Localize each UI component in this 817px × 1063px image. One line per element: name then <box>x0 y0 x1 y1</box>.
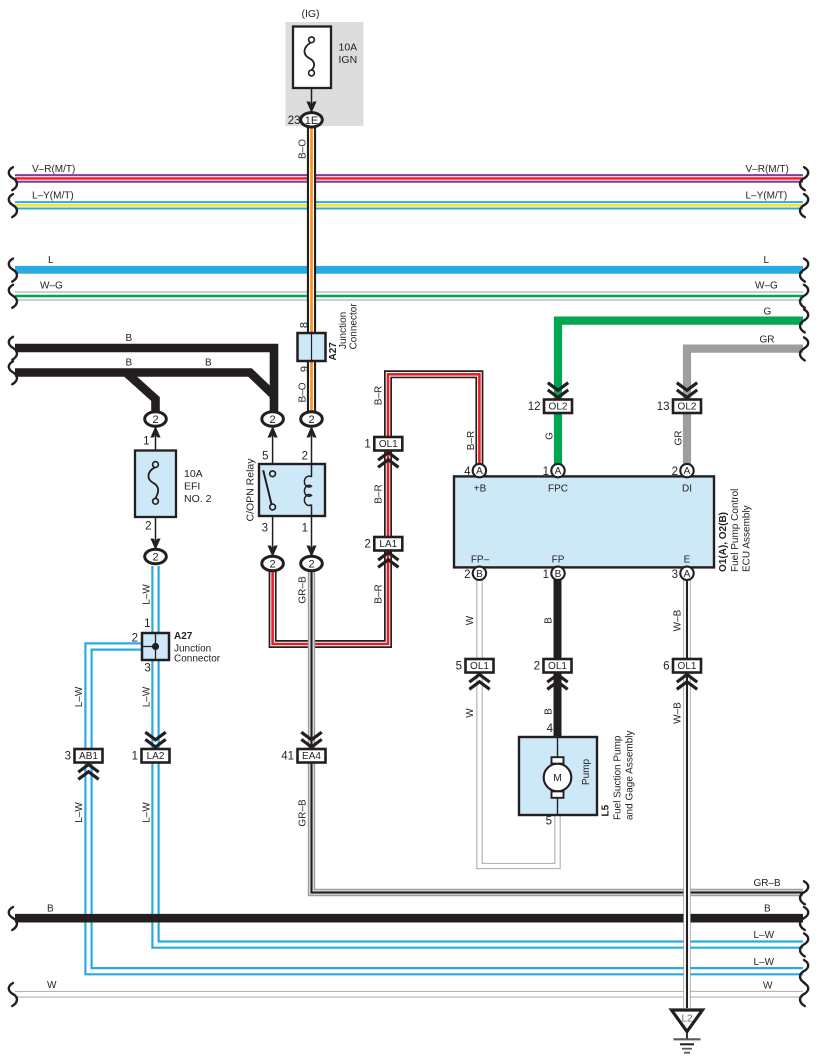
svg-text:Pump: Pump <box>581 759 592 786</box>
relay C/OPN Relay <box>259 464 325 516</box>
svg-text:4: 4 <box>547 723 554 735</box>
wire stub EFI fuse to node 2 <box>155 516 157 550</box>
svg-text:L5: L5 <box>601 804 612 816</box>
svg-text:2: 2 <box>270 414 276 426</box>
svg-text:A: A <box>684 569 691 580</box>
svg-text:B–R: B–R <box>374 484 385 503</box>
wire L bus <box>15 266 803 274</box>
svg-text:W–B: W–B <box>673 609 684 631</box>
wire GR below OL2 to ECU pin DI <box>683 412 691 466</box>
svg-text:OL1: OL1 <box>379 439 398 450</box>
relay coil <box>311 464 313 477</box>
svg-text:8: 8 <box>299 322 311 328</box>
svg-text:G: G <box>764 307 772 318</box>
bus end squiggles right <box>800 167 808 190</box>
svg-text:M: M <box>553 772 562 784</box>
ECU pin 2 DI <box>680 464 693 477</box>
svg-text:2: 2 <box>364 539 370 551</box>
wire B-O from ignition fuse through junction A27 to relay pin 2 <box>307 126 316 333</box>
svg-text:12: 12 <box>528 401 541 413</box>
fuse 10A IGN <box>293 27 331 89</box>
ECU pin 1 FP <box>551 567 564 580</box>
wire W-G bus <box>15 291 803 300</box>
svg-text:2: 2 <box>672 466 678 478</box>
chevrons at OL1 pin 2 <box>547 675 567 690</box>
connector LA2 pin 1 <box>142 749 170 763</box>
svg-text:OL1: OL1 <box>548 661 567 672</box>
svg-text:10A: 10A <box>184 468 203 480</box>
wire W-B from ECU pin E via OL1 to ground L2 <box>683 578 690 1008</box>
svg-text:9: 9 <box>299 366 311 372</box>
svg-text:LA2: LA2 <box>147 751 165 762</box>
ECU pin 1 FPC <box>551 464 564 477</box>
svg-text:L–Y(M/T): L–Y(M/T) <box>746 191 788 202</box>
node 2 above EFI fuse <box>145 412 167 426</box>
svg-text:A: A <box>684 466 691 477</box>
svg-text:NO. 2: NO. 2 <box>184 493 212 505</box>
svg-text:EFI: EFI <box>184 481 200 493</box>
node 2 below EFI fuse <box>145 549 167 563</box>
svg-text:L–W: L–W <box>74 686 85 707</box>
svg-text:4: 4 <box>464 466 471 478</box>
wire L-Y(M/T) bus <box>15 201 803 209</box>
svg-text:B: B <box>544 617 555 624</box>
ECU pin 3 E <box>680 567 693 580</box>
svg-text:1: 1 <box>132 751 138 763</box>
svg-text:FP: FP <box>552 555 565 566</box>
connector OL1 pin 1 <box>374 437 402 451</box>
svg-text:L–W: L–W <box>74 802 85 823</box>
svg-text:FPC: FPC <box>548 484 568 495</box>
wire V-R(M/T) bus <box>15 174 803 183</box>
svg-text:B–R: B–R <box>466 431 477 450</box>
svg-text:23: 23 <box>288 115 301 127</box>
svg-text:E: E <box>684 555 691 566</box>
junction connector A27 upper <box>298 333 326 361</box>
wire stub relay pin 1 to node 2 <box>311 515 313 557</box>
connector OL1 pin 2 <box>544 659 572 673</box>
svg-text:5: 5 <box>262 451 268 463</box>
wire W from ECU pin FP- via OL1 to pump pin 5 <box>480 578 558 866</box>
svg-text:2: 2 <box>270 558 276 570</box>
fuse 10A EFI NO. 2 <box>135 451 176 518</box>
svg-text:GR: GR <box>674 431 685 446</box>
wire stub inside pump above motor <box>557 737 559 758</box>
svg-text:(IG): (IG) <box>301 8 319 20</box>
chevrons at OL1 pin 6 <box>677 675 697 690</box>
svg-text:B: B <box>126 333 133 344</box>
svg-text:GR–B: GR–B <box>754 878 782 889</box>
svg-text:OL1: OL1 <box>678 661 697 672</box>
svg-text:and Gage Assembly: and Gage Assembly <box>625 731 636 821</box>
ECU box Fuel Pump Control ECU Assembly <box>454 476 714 567</box>
wire stub inside pump below motor <box>557 797 559 815</box>
svg-text:2: 2 <box>152 414 158 426</box>
svg-text:1: 1 <box>364 439 370 451</box>
wire B bottom bus <box>15 914 803 923</box>
svg-text:5: 5 <box>546 816 552 828</box>
svg-text:2: 2 <box>534 661 540 673</box>
wire G below OL2 to ECU pin FPC <box>554 412 562 466</box>
svg-text:W–G: W–G <box>40 281 63 292</box>
svg-text:B: B <box>126 358 133 369</box>
svg-text:A: A <box>476 466 483 477</box>
junction connector A27 lower <box>142 633 169 660</box>
connector OL2 pin 12 <box>544 400 572 414</box>
background gray block behind ignition fuse <box>286 22 364 126</box>
svg-text:ECU Assembly: ECU Assembly <box>742 505 753 572</box>
svg-text:AB1: AB1 <box>79 751 98 762</box>
svg-text:V–R(M/T): V–R(M/T) <box>32 164 75 175</box>
wire B branch diagonal to EFI fuse <box>126 373 156 415</box>
node 2 above relay pin 2 <box>301 412 323 426</box>
wire stub fuse IGN to connector 1E <box>311 88 313 113</box>
svg-text:LA1: LA1 <box>379 539 397 550</box>
chevrons at EA4 <box>301 732 321 747</box>
wire stub node 2 to relay pin 5 <box>272 426 274 465</box>
svg-text:L–W: L–W <box>142 584 153 605</box>
svg-text:L: L <box>48 255 54 266</box>
svg-text:L2: L2 <box>681 1014 693 1025</box>
svg-text:3: 3 <box>144 663 150 675</box>
svg-text:OL1: OL1 <box>470 661 489 672</box>
wire B from ECU pin FP via OL1 to pump pin 4 <box>554 578 562 740</box>
svg-text:W: W <box>47 980 57 991</box>
wire GR-B from relay pin 1 via EA4 down and right to bus edge <box>312 566 804 893</box>
svg-text:2: 2 <box>302 451 308 463</box>
node 2 below relay pin 3 <box>262 556 284 570</box>
svg-text:DI: DI <box>682 484 692 495</box>
svg-text:1: 1 <box>302 523 308 535</box>
wire GR bus to OL2 <box>687 349 803 402</box>
svg-text:Connector: Connector <box>174 654 221 665</box>
connector OL1 pin 5 <box>466 659 494 673</box>
ECU pin 2 FP- <box>473 567 486 580</box>
svg-text:G: G <box>545 432 556 440</box>
svg-text:C/OPN Relay: C/OPN Relay <box>245 458 257 522</box>
svg-text:Fuel Pump Control: Fuel Pump Control <box>730 489 741 572</box>
svg-text:L: L <box>764 255 770 266</box>
svg-text:W–B: W–B <box>673 702 684 724</box>
svg-text:B: B <box>764 904 771 915</box>
svg-text:Connector: Connector <box>349 303 360 350</box>
svg-text:2: 2 <box>308 414 314 426</box>
svg-text:41: 41 <box>281 751 294 763</box>
svg-text:5: 5 <box>456 661 462 673</box>
svg-text:W: W <box>465 708 476 718</box>
svg-text:B: B <box>47 904 54 915</box>
svg-text:L–W: L–W <box>142 686 153 707</box>
svg-text:OL2: OL2 <box>549 402 568 413</box>
svg-text:EA4: EA4 <box>302 751 321 762</box>
svg-text:O1(A), O2(B): O1(A), O2(B) <box>718 512 729 572</box>
svg-text:Junction: Junction <box>338 312 349 349</box>
wire stub node 2 to relay pin 2 <box>311 426 313 465</box>
wire stub relay pin 3 to node 2 <box>272 515 274 557</box>
node 2 above relay pin 5 <box>262 412 284 426</box>
wire B-R from relay pin 3 via LA1 and OL1 to ECU pin +B <box>273 374 480 644</box>
chevrons at LA1 <box>378 553 398 568</box>
svg-text:1: 1 <box>543 569 549 581</box>
wire W bottom bus <box>15 991 803 998</box>
svg-text:+B: +B <box>474 484 487 495</box>
svg-text:GR: GR <box>760 335 775 346</box>
svg-text:2: 2 <box>152 551 158 563</box>
wire stub node 2 to EFI fuse <box>155 426 157 451</box>
svg-text:2: 2 <box>132 633 138 645</box>
svg-text:1: 1 <box>144 618 150 630</box>
connector 1E pin 23 <box>301 113 323 127</box>
svg-text:IGN: IGN <box>339 54 358 66</box>
chevrons at AB1 <box>78 765 98 780</box>
node 2 below relay pin 1 <box>301 556 323 570</box>
svg-text:3: 3 <box>65 751 71 763</box>
svg-text:L–W: L–W <box>754 930 775 941</box>
ground L2 <box>672 1010 703 1032</box>
ECU pin 4 +B <box>473 464 486 477</box>
wire B bus upper with vertical drop to relay pin 5 <box>15 348 274 414</box>
connector LA1 pin 2 <box>374 537 402 551</box>
connector AB1 pin 3 <box>75 749 103 763</box>
relay switch contacts <box>263 470 271 504</box>
svg-text:L–W: L–W <box>754 957 775 968</box>
svg-text:3: 3 <box>672 569 678 581</box>
connector OL2 pin 13 <box>673 400 701 414</box>
chevrons at OL1 pin 1 <box>378 453 398 468</box>
svg-text:B–R: B–R <box>374 386 385 405</box>
motor M of fuel pump <box>544 764 572 792</box>
svg-text:W–G: W–G <box>755 281 778 292</box>
svg-text:GR–B: GR–B <box>298 799 309 827</box>
pump box Fuel Suction Pump and Gage Assembly <box>519 737 597 815</box>
arrow into 1E <box>306 101 316 113</box>
chevrons at OL1 pin 5 <box>469 675 489 690</box>
svg-text:6: 6 <box>663 661 669 673</box>
svg-text:FP–: FP– <box>471 555 490 566</box>
svg-text:1: 1 <box>143 436 149 448</box>
svg-text:W: W <box>763 981 773 992</box>
svg-text:2: 2 <box>145 521 151 533</box>
svg-text:A27: A27 <box>174 631 193 642</box>
svg-text:B–R: B–R <box>374 584 385 603</box>
svg-text:1: 1 <box>543 466 549 478</box>
svg-text:W: W <box>465 615 476 625</box>
svg-text:B: B <box>544 708 555 715</box>
wire L-W from EFI fuse through junction A27 and LA2 to bus <box>156 566 804 945</box>
svg-text:B–O: B–O <box>298 139 309 159</box>
svg-text:2: 2 <box>308 558 314 570</box>
chevrons at LA2 <box>145 732 165 747</box>
bus end squiggles left <box>9 167 17 190</box>
svg-text:13: 13 <box>657 401 670 413</box>
svg-text:B–O: B–O <box>298 382 309 402</box>
svg-text:2: 2 <box>464 569 470 581</box>
chevrons at OL2 pin 12 <box>548 383 568 398</box>
svg-text:3: 3 <box>262 523 268 535</box>
connector EA4 pin 41 <box>298 749 326 763</box>
svg-text:B: B <box>555 569 562 580</box>
svg-text:OL2: OL2 <box>678 402 697 413</box>
svg-text:Fuel Suction Pump: Fuel Suction Pump <box>613 735 624 820</box>
svg-text:V–R(M/T): V–R(M/T) <box>746 164 789 175</box>
svg-text:B: B <box>205 358 212 369</box>
wire L-W left branch through AB1 to bus <box>89 647 804 972</box>
connector OL1 pin 6 <box>673 659 701 673</box>
wire B bus lower with diagonal join <box>15 373 274 396</box>
svg-text:L–Y(M/T): L–Y(M/T) <box>32 191 74 202</box>
svg-text:GR–B: GR–B <box>298 576 309 604</box>
svg-text:1E: 1E <box>305 115 318 127</box>
svg-text:B: B <box>476 569 483 580</box>
svg-text:L–W: L–W <box>142 802 153 823</box>
chevrons at OL2 pin 13 <box>677 383 697 398</box>
svg-text:10A: 10A <box>339 42 358 54</box>
wire G bus to OL2 <box>558 321 803 402</box>
svg-text:A: A <box>555 466 562 477</box>
